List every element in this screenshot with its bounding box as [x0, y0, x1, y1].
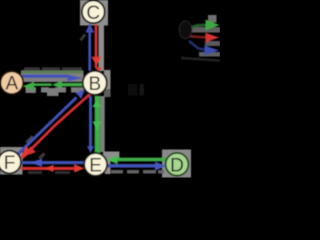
svg-text:A: A	[5, 74, 18, 95]
svg-text:D: D	[170, 155, 184, 176]
svg-text:F: F	[4, 153, 16, 174]
svg-text:B: B	[88, 74, 101, 95]
svg-text:C: C	[86, 3, 100, 24]
svg-text:E: E	[89, 155, 102, 176]
